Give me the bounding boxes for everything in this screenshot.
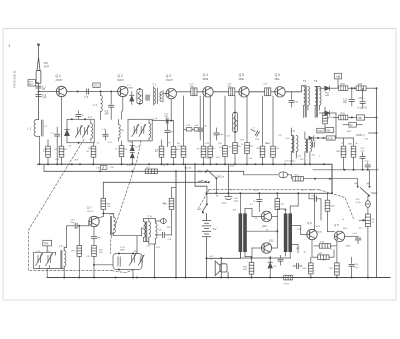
svg-text:100: 100 [99, 252, 103, 254]
svg-text:2k: 2k [356, 143, 358, 145]
svg-text:C21 (45Ω) +: C21 (45Ω) + [284, 161, 297, 163]
svg-text:10μ: 10μ [354, 267, 358, 269]
resistor R29 [309, 263, 314, 274]
svg-text:R32: R32 [358, 84, 363, 86]
svg-text:2k: 2k [241, 144, 243, 146]
svg-text:Q 7: Q 7 [87, 206, 92, 210]
svg-text:L 3: L 3 [93, 103, 97, 107]
varactor D4 [65, 129, 70, 135]
resistor R37 [335, 263, 340, 275]
trimmer CT5 [75, 125, 82, 137]
svg-text:C19: C19 [71, 219, 76, 221]
resistor R15 [260, 146, 265, 157]
capacitor C5 [87, 89, 89, 94]
capacitor C16 boxed [229, 88, 235, 96]
svg-text:Q11: Q11 [269, 238, 274, 242]
resistor R6 [159, 146, 164, 157]
svg-text:9D1B: 9D1B [203, 79, 209, 81]
EXT antenna box [28, 80, 39, 86]
svg-text:R27: R27 [296, 248, 301, 250]
svg-text:0.02: 0.02 [286, 138, 291, 140]
svg-text:10k: 10k [88, 148, 91, 150]
ceramic filter CF2 [233, 113, 238, 133]
svg-text:30P: 30P [300, 159, 304, 161]
svg-text:4-872-118-11: 4-872-118-11 [13, 70, 17, 88]
svg-text:R33: R33 [336, 151, 341, 153]
resistor R9 [201, 146, 206, 157]
svg-text:FB: FB [121, 130, 124, 132]
svg-text:R11: R11 [218, 143, 222, 145]
svg-text:R22: R22 [329, 117, 334, 119]
svg-text:1: 1 [8, 43, 11, 48]
svg-text:330: 330 [176, 149, 180, 151]
svg-text:9013: 9013 [316, 226, 321, 228]
wire to Q6 [271, 91, 275, 93]
trimmer CT7 [132, 124, 139, 136]
svg-text:R24b: R24b [317, 232, 323, 234]
svg-text:AM: AM [201, 179, 204, 182]
svg-text:1.5k: 1.5k [276, 148, 280, 150]
svg-text:R32b: R32b [346, 246, 352, 248]
power switch SW2 [206, 193, 208, 204]
svg-text:18P: 18P [105, 113, 110, 115]
wire long vertical to audio [175, 171, 177, 277]
page border frame [3, 29, 396, 301]
ceramic filter CF1 [137, 89, 143, 103]
svg-text:FM: FM [44, 61, 49, 65]
trimmer frame wires [34, 252, 65, 277]
svg-text:3.3μ: 3.3μ [219, 134, 224, 136]
transistor Q7 [89, 216, 99, 226]
resistor R18 [101, 198, 106, 209]
diode D2 [325, 86, 333, 91]
loop connections [94, 236, 137, 278]
svg-text:T7: T7 [233, 208, 237, 212]
svg-text:C15 +: C15 + [359, 98, 366, 100]
svg-text:20P: 20P [75, 160, 79, 162]
svg-text:C32: C32 [356, 199, 361, 201]
capacitor C20 [93, 227, 95, 236]
bottom ground rail [47, 277, 390, 279]
svg-text:10k: 10k [359, 228, 362, 230]
svg-text:C22: C22 [278, 135, 283, 137]
svg-text:47k: 47k [111, 167, 114, 169]
svg-text:0.5: 0.5 [250, 204, 254, 206]
wire antenna to Q1 base [39, 91, 57, 93]
trimmer CT6 [82, 125, 89, 137]
svg-text:C5b: C5b [55, 159, 60, 161]
svg-text:560: 560 [64, 149, 68, 151]
svg-text:T 4: T 4 [148, 215, 152, 219]
svg-text:SW1b: SW1b [371, 192, 378, 195]
svg-text:+: + [247, 261, 249, 263]
svg-text:Q 9: Q 9 [307, 221, 312, 225]
resistor R12 [233, 143, 238, 154]
svg-text:OA90: OA90 [127, 87, 133, 90]
svg-text:FM: FM [198, 171, 201, 174]
svg-text:ANT: ANT [29, 83, 34, 86]
svg-text:R 5: R 5 [147, 167, 151, 169]
svg-text:T 1: T 1 [152, 83, 156, 87]
svg-text:R3: R3 [125, 149, 128, 151]
inductor L3 [100, 92, 102, 96]
varactor tuning box L4 [128, 119, 152, 141]
tuning loop frame [113, 254, 142, 270]
resistor R28 in rail [284, 275, 293, 280]
choke L7 [119, 125, 121, 139]
svg-text:C: C [319, 156, 321, 158]
transistor Q2 [118, 86, 128, 96]
svg-text:R30: R30 [340, 84, 345, 86]
svg-text:2SC97: 2SC97 [166, 80, 174, 82]
speaker return wire [239, 252, 241, 258]
antenna FM ANT [36, 43, 41, 119]
wire Q2 emitter [122, 97, 124, 110]
capacitor C34 [345, 235, 358, 237]
value labels [43, 125, 369, 263]
transistor Q8 [334, 231, 344, 241]
diode D1 [130, 92, 134, 105]
+B label box [334, 73, 341, 79]
svg-text:B1: B1 [216, 196, 219, 198]
svg-text:T3: T3 [314, 79, 318, 83]
wire to Q5 [235, 91, 239, 93]
T4 secondary [149, 219, 156, 278]
resistor R3 [119, 146, 124, 157]
svg-text:10Ω: 10Ω [243, 269, 247, 271]
svg-text:TRK: TRK [44, 243, 49, 246]
boxed label 1k on bus [100, 166, 107, 170]
bus jog [243, 171, 245, 175]
svg-text:0.01: 0.01 [216, 157, 221, 159]
coil of L2 [91, 124, 93, 139]
varactor D5b [130, 153, 134, 165]
svg-text:33k: 33k [107, 206, 110, 208]
resistor R1 [46, 146, 51, 157]
svg-text:SW2: SW2 [197, 209, 202, 211]
svg-text:5k: 5k [372, 222, 375, 224]
svg-text:R10: R10 [205, 143, 210, 145]
svg-text:10μ: 10μ [71, 222, 75, 224]
trimmer CT3 [129, 253, 136, 265]
transistor Q5 [239, 87, 249, 97]
svg-text:10k: 10k [163, 203, 166, 205]
svg-text:Q 4: Q 4 [203, 73, 208, 77]
svg-text:1μ: 1μ [253, 201, 256, 203]
coil of L4 [149, 123, 151, 138]
svg-text:56: 56 [304, 252, 307, 254]
svg-text:5Ω: 5Ω [281, 204, 284, 206]
svg-text:C 31: C 31 [120, 247, 125, 249]
svg-text:0.04: 0.04 [156, 247, 161, 249]
svg-text:R22b: R22b [222, 203, 228, 205]
capacitor C35 [351, 257, 353, 263]
capacitor C25 [297, 263, 299, 268]
resistor R26 [249, 262, 254, 274]
svg-text:R25: R25 [331, 205, 336, 207]
svg-text:455: 455 [327, 129, 332, 132]
audio B+ rail [207, 192, 332, 194]
wire across amp bottom [240, 257, 290, 259]
capacitor C36 [309, 198, 314, 200]
resistor R22 [323, 113, 328, 124]
svg-text:C•: C• [253, 128, 256, 130]
svg-text:30P: 30P [167, 227, 171, 229]
svg-text:470: 470 [312, 155, 316, 157]
svg-text:C25: C25 [168, 239, 173, 241]
svg-text:Q 3: Q 3 [166, 74, 171, 78]
resistor R14 [245, 143, 250, 154]
test point box 17Ohm [93, 83, 100, 87]
boxed label OSC [317, 128, 324, 133]
wire Q1 collector rail [67, 91, 118, 93]
svg-text:2SC87: 2SC87 [56, 80, 64, 82]
svg-text:C18: C18 [187, 125, 192, 127]
svg-text:C6: C6 [97, 143, 100, 145]
svg-text:9D9L: 9D9L [239, 79, 245, 81]
svg-text:M46: M46 [325, 95, 330, 97]
regulator box [356, 115, 364, 120]
svg-text:GND (-): GND (-) [356, 133, 365, 137]
capacitor C6 tank top [77, 111, 79, 114]
diode D3 [319, 111, 336, 116]
svg-text:T46: T46 [357, 116, 362, 120]
varactor D5a [130, 141, 134, 151]
rail nodes [251, 277, 253, 279]
svg-text:15μ: 15μ [343, 102, 348, 104]
ceramic capacitor pair Ca [186, 128, 200, 131]
volume control VR [359, 214, 370, 278]
svg-text:0.02: 0.02 [195, 125, 200, 127]
svg-text:C23: C23 [298, 156, 303, 158]
capacitor block C39 [198, 128, 203, 133]
wire Q3 to C cap [176, 91, 190, 93]
svg-text:47P: 47P [97, 238, 101, 240]
svg-text:VR: VR [372, 219, 375, 221]
resistor R4 [91, 146, 96, 157]
resistor R30b [325, 200, 330, 211]
resistor R2 [59, 146, 64, 157]
diode D7 AM det [309, 136, 314, 140]
trimmer box TRK [43, 240, 52, 246]
svg-text:30P: 30P [190, 86, 194, 88]
svg-text:Q 5: Q 5 [239, 73, 244, 77]
svg-text:C26: C26 [146, 246, 151, 248]
svg-text:C37: C37 [301, 190, 306, 192]
svg-text:1k: 1k [115, 149, 117, 151]
svg-text:D4: D4 [129, 142, 132, 144]
svg-text:6V: 6V [213, 227, 217, 231]
svg-text:BLBH: BLBH [118, 80, 124, 82]
svg-text:4.7k: 4.7k [86, 256, 90, 258]
transistor Q1 [56, 86, 66, 96]
capacitor C8 [110, 92, 112, 105]
transistor Q6 [275, 87, 285, 97]
wire to Q4 [197, 91, 203, 93]
svg-text:R34: R34 [348, 144, 353, 146]
svg-text:100μ: 100μ [234, 201, 240, 203]
svg-text:0.02: 0.02 [249, 158, 254, 160]
wire Q4 to C16 [213, 91, 228, 93]
svg-text:ANT: ANT [44, 64, 50, 68]
oscillator coil T5b [306, 139, 307, 153]
resistor R10 [208, 146, 213, 157]
svg-text:C 5: C 5 [85, 96, 89, 99]
wire Q1 emitter down [61, 97, 63, 147]
svg-text:1k: 1k [350, 124, 353, 127]
svg-text:T2: T2 [303, 79, 307, 83]
svg-text:20k: 20k [265, 143, 268, 145]
svg-text:9B1L: 9B1L [275, 79, 281, 81]
transistor Q9 [307, 229, 317, 239]
svg-text:2SC73: 2SC73 [87, 211, 94, 213]
svg-text:C8: C8 [69, 146, 72, 148]
svg-text:R14: R14 [256, 139, 261, 141]
emitter join Q10 Q11 [247, 216, 277, 248]
capacitor C31 [118, 257, 120, 266]
capacitor C15 boxed [191, 88, 197, 96]
svg-text:2.2k: 2.2k [43, 149, 47, 151]
capacitor C13b tilted [255, 131, 259, 136]
svg-text:0.1μ C16: 0.1μ C16 [358, 108, 368, 110]
capacitor C30 [258, 193, 260, 198]
svg-text:68k: 68k [238, 146, 241, 148]
capacitor C18 [291, 92, 293, 100]
resistor R11 [223, 146, 228, 157]
resistor R21 [171, 187, 173, 198]
transistor Q11 [261, 243, 271, 253]
svg-text:9012: 9012 [343, 228, 348, 230]
svg-text:R13: R13 [250, 146, 255, 148]
trimmer CT4 [138, 255, 144, 265]
svg-text:17Ω: 17Ω [94, 83, 99, 87]
wire Q6 to T2 [285, 91, 301, 93]
svg-text:0.01: 0.01 [127, 165, 132, 167]
svg-text:C13: C13 [343, 99, 348, 101]
svg-text:F 8 B: F 8 B [284, 283, 290, 285]
svg-text:4: 4 [331, 249, 333, 251]
capacitor C16b [313, 142, 315, 147]
svg-text:OSC: OSC [318, 130, 323, 133]
svg-text:47P: 47P [42, 97, 47, 100]
svg-text:Q 1: Q 1 [56, 74, 61, 78]
svg-text:180P: 180P [120, 250, 126, 252]
capacitor C33 [278, 259, 283, 261]
node [38, 91, 40, 93]
svg-text:+: + [361, 238, 363, 240]
transistor Q4 [203, 87, 213, 97]
svg-text:C19: C19 [203, 126, 208, 128]
svg-text:0.27μ: 0.27μ [356, 202, 362, 204]
capacitor C7 [56, 127, 58, 133]
resistor R17 [77, 245, 82, 256]
dashed tuning gang link [29, 140, 141, 271]
trimmer CT8 [139, 124, 146, 136]
svg-text:R17: R17 [72, 251, 77, 253]
svg-text:Q 8: Q 8 [334, 223, 339, 227]
svg-text:Q 6: Q 6 [275, 73, 280, 77]
resistor R34 [351, 146, 356, 157]
capacitor block [145, 95, 150, 101]
svg-text:R2: R2 [86, 151, 89, 153]
svg-text:Q10: Q10 [262, 224, 267, 228]
capacitor C23 [163, 232, 165, 237]
resistor R19 [92, 245, 97, 256]
main ground bus [38, 164, 333, 193]
svg-text:EXT: EXT [29, 82, 34, 84]
dashed audio enclosure [199, 190, 354, 219]
capacitor C9 [103, 134, 108, 136]
mid rail right nodes [313, 169, 378, 171]
transistor Q10 [261, 211, 271, 221]
svg-text:R37: R37 [329, 268, 334, 270]
capacitor C11 [167, 121, 169, 130]
svg-text:8.2k: 8.2k [155, 150, 159, 152]
svg-text:R20: R20 [254, 190, 259, 192]
svg-text:25V: 25V [365, 139, 369, 141]
svg-text:R29: R29 [303, 268, 308, 270]
resistor R23 in bus [293, 176, 304, 181]
capacitor C17 boxed [265, 88, 271, 96]
svg-text:AGC: AGC [347, 130, 352, 133]
svg-text:C20: C20 [227, 136, 232, 138]
resistor R16 [271, 146, 276, 157]
svg-text:L 5: L 5 [59, 244, 63, 248]
svg-text:R 35: R 35 [328, 137, 334, 140]
svg-text:2P: 2P [42, 88, 45, 91]
svg-text:+B: +B [336, 75, 341, 79]
wire Q5 to C17 [249, 91, 264, 93]
capacitor C4 [36, 95, 41, 97]
svg-text:4.7k: 4.7k [177, 146, 181, 148]
electrolytic C22 [155, 219, 166, 224]
svg-text:C29: C29 [254, 218, 259, 220]
capacitor C12 [214, 133, 219, 135]
dashed gang link to trimmers [111, 160, 138, 273]
electrolytic C40 [227, 164, 229, 193]
svg-text:15P: 15P [170, 132, 174, 134]
converter feed wire [103, 181, 209, 183]
resistor R7 [171, 147, 176, 158]
svg-text:L 1: L 1 [28, 127, 32, 131]
bus node dots [39, 163, 41, 165]
diode D6 [268, 257, 272, 278]
second bus AGC [44, 170, 244, 172]
svg-text:C34: C34 [353, 233, 358, 235]
svg-text:C24: C24 [158, 230, 163, 232]
svg-text:1k: 1k [213, 148, 215, 150]
right supply rail [376, 88, 378, 277]
svg-text:L 2: L 2 [88, 115, 92, 119]
svg-text:8Ω: 8Ω [210, 259, 213, 261]
svg-text:(TD-20): (TD-20) [184, 168, 191, 170]
boxed label 455 [326, 128, 334, 133]
svg-text:D 6: D 6 [273, 266, 277, 268]
svg-text:0.04: 0.04 [230, 166, 235, 168]
resistor R8 [181, 146, 186, 157]
svg-text:1k: 1k [342, 219, 344, 221]
wire detector out [333, 87, 339, 89]
resistor R24 [275, 199, 280, 210]
wire Q9 collector riser [314, 193, 316, 229]
svg-text:C17: C17 [263, 84, 268, 86]
varactor tuning box L2 [67, 119, 94, 142]
svg-text:0.01: 0.01 [108, 142, 113, 144]
svg-text:C 3: C 3 [44, 126, 48, 128]
capacitor C1 [36, 86, 41, 88]
svg-text:SW 1a: SW 1a [217, 175, 225, 178]
wire B+ feed to audio [195, 164, 207, 193]
